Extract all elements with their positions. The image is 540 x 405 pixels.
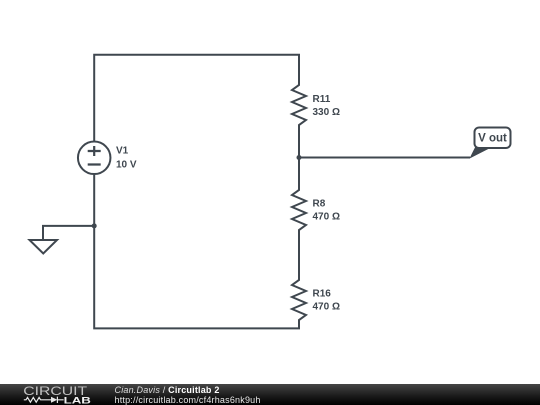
svg-text:R16: R16 — [313, 289, 332, 300]
svg-text:470 Ω: 470 Ω — [313, 302, 340, 313]
svg-text:330 Ω: 330 Ω — [313, 107, 340, 118]
svg-text:10 V: 10 V — [116, 160, 137, 171]
svg-text:R8: R8 — [313, 199, 326, 210]
svg-text:R11: R11 — [313, 94, 331, 105]
svg-text:LAB: LAB — [64, 395, 91, 405]
svg-text:V out: V out — [478, 133, 507, 145]
svg-text:V1: V1 — [116, 146, 129, 157]
svg-text:470 Ω: 470 Ω — [313, 212, 340, 223]
